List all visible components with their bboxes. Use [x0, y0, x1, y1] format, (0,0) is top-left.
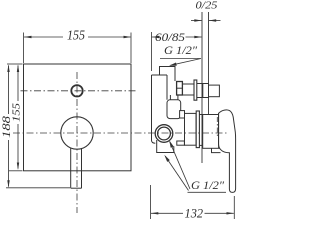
- wall max line lower segment: [208, 98, 210, 115]
- inlet circle inner: [158, 127, 171, 140]
- dim line 60-85: [152, 36, 202, 38]
- housing neck left: [169, 95, 171, 100]
- arrow G12 top leader: [169, 63, 177, 66]
- lever right edge: [81, 148, 83, 188]
- set screw: [180, 111, 185, 118]
- side body left face: [152, 75, 168, 143]
- ext line plate top left: [7, 63, 23, 65]
- dimensions: [6, 21, 234, 220]
- arrow 0-25 right: [209, 19, 217, 21]
- side body inner edge: [166, 75, 168, 100]
- wall surface line: [201, 12, 203, 163]
- arrow 188 down: [7, 180, 9, 188]
- svg-text:132: 132: [185, 205, 204, 220]
- hub bottom step: [212, 148, 221, 152]
- dim line 155 top: [24, 36, 131, 38]
- arrow 155v up: [17, 65, 19, 73]
- knob connector bottom: [197, 97, 203, 99]
- svg-text:G 1/2″: G 1/2″: [164, 45, 197, 57]
- svg-text:G 1/2″: G 1/2″: [191, 180, 224, 192]
- handle axis tick: [216, 117, 218, 136]
- arrow 132 right: [227, 212, 235, 214]
- housing neck right: [177, 95, 179, 100]
- arrow 155 top left: [24, 36, 32, 38]
- top boss: [160, 67, 176, 82]
- svg-text:60/85: 60/85: [155, 30, 185, 44]
- arrow 188 up: [7, 65, 9, 73]
- handle hub: [203, 115, 219, 149]
- dim line 0-25 right: [209, 20, 221, 22]
- hub front edge: [218, 114, 220, 148]
- ext line lever bottom left: [6, 187, 70, 189]
- arrow 60-85 right: [194, 36, 202, 38]
- arrow 155 top right: [124, 36, 132, 38]
- ext line plate bottom left: [9, 170, 23, 172]
- cartridge body: [185, 113, 197, 145]
- lever bottom: [71, 187, 82, 189]
- main escutcheon flange: [196, 111, 199, 148]
- ext line 132 left: [150, 185, 152, 219]
- ext line 60-85: [151, 32, 153, 71]
- leader G12 bottom B: [170, 142, 190, 189]
- stem stack mid line: [177, 87, 183, 89]
- cartridge bottom step: [177, 141, 185, 145]
- ext line 132 right: [233, 196, 235, 219]
- centerline horizontal main axis: [13, 132, 228, 134]
- diverter flange: [194, 80, 197, 100]
- centerline horizontal small circle: [21, 90, 138, 92]
- arrow G12 bottom B: [169, 140, 174, 148]
- arrow 0-25 left: [194, 19, 202, 21]
- diverter knob circle: [71, 85, 82, 96]
- lever side view: [219, 110, 236, 192]
- knob connector top: [197, 83, 203, 85]
- svg-text:155: 155: [12, 103, 23, 122]
- lever left edge: [70, 148, 72, 188]
- hub connector bottom: [199, 144, 202, 146]
- handle circle: [61, 117, 93, 149]
- svg-text:155: 155: [67, 29, 85, 44]
- leader G12 bottom A: [165, 156, 188, 190]
- knob head: [209, 85, 220, 97]
- diverter stem stack: [177, 82, 183, 96]
- centerline vertical front view: [76, 72, 78, 213]
- diverter cylinder top: [182, 83, 194, 85]
- ext line plate left top: [23, 33, 25, 64]
- svg-text:0/25: 0/25: [196, 1, 218, 12]
- arrow 132 left: [151, 212, 159, 214]
- dim line 0-25 left: [191, 20, 202, 22]
- dim line 188: [8, 66, 10, 187]
- diverter housing rounded box: [167, 100, 181, 119]
- knob base: [203, 84, 209, 98]
- arrow 155v down: [17, 163, 19, 171]
- inlet circle outer: [155, 125, 173, 143]
- arrow 60-85 left: [152, 36, 160, 38]
- inlet bracket: [157, 140, 174, 153]
- dim line 132: [151, 212, 234, 214]
- hub connector top: [199, 114, 202, 116]
- underline G12 bottom: [188, 191, 227, 193]
- diverter cylinder bottom: [182, 94, 194, 96]
- wall max line: [208, 12, 210, 85]
- leader G12 top underline: [160, 59, 201, 66]
- ext line plate right top: [130, 33, 132, 64]
- plate front view: [24, 64, 132, 171]
- arrow G12 bottom A: [164, 155, 170, 162]
- dim line 155 vertical: [17, 66, 19, 169]
